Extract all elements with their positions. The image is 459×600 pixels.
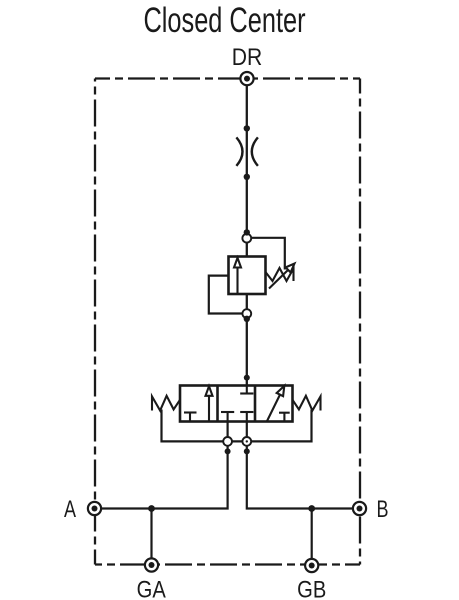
title: Closed Center — [143, 1, 305, 40]
junction dot above directional valve — [244, 375, 250, 381]
wire: GB drop line — [311, 509, 313, 566]
port B — [353, 502, 366, 515]
wire: DR port down through orifice to reducing valve — [246, 85, 248, 256]
wire: reducing valve outlet down to directional valve P port — [246, 294, 248, 386]
svg-text:B: B — [376, 497, 388, 523]
port GB — [305, 559, 318, 572]
junction dot on A-line at GA — [148, 505, 155, 512]
left position: blocked port T — [184, 413, 197, 422]
wire: A-line from valve to port A — [95, 422, 228, 509]
left position: flow arrow — [206, 386, 213, 421]
label GB — [297, 576, 326, 600]
node: A-line ring (open) — [223, 437, 232, 446]
wire: GA drop line — [150, 509, 152, 566]
right position: diagonal flow arrow — [267, 386, 285, 422]
reducing valve spring — [266, 268, 294, 281]
port GA — [145, 558, 158, 571]
label B — [376, 497, 388, 523]
svg-text:GA: GA — [137, 576, 166, 600]
centre position: blocked B port T — [240, 412, 253, 422]
pressure reducing valve body — [229, 257, 266, 295]
junction dot on B-line below ring — [244, 448, 250, 454]
label DR — [232, 44, 262, 71]
node: reducing valve outlet (ring + junction dot) — [242, 309, 251, 322]
svg-text:Closed Center: Closed Center — [143, 1, 305, 40]
right return spring — [293, 396, 321, 411]
node: reducing valve inlet (ring + junction dot) — [242, 229, 251, 242]
pilot line loop (left of reducing valve) — [209, 276, 243, 314]
label GA — [137, 576, 166, 600]
svg-text:DR: DR — [232, 44, 262, 71]
junction dot above orifice — [244, 125, 250, 131]
centre position: blocked A port T — [221, 412, 234, 422]
centre position: blocked P port T — [240, 386, 253, 394]
wire: B-line from valve to port B — [247, 422, 360, 509]
tank bypass U-line under valve — [162, 410, 312, 442]
svg-text:A: A — [64, 497, 77, 523]
node: B-line ring (with dot) — [242, 437, 251, 446]
left return spring — [152, 396, 180, 411]
reducing valve flow arrow — [234, 258, 241, 294]
svg-text:GB: GB — [297, 576, 326, 600]
junction dot on B-line at GB — [308, 505, 315, 512]
port DR — [240, 72, 253, 85]
junction dot on A-line below ring — [225, 448, 231, 454]
label A — [64, 497, 77, 523]
port A — [88, 502, 101, 515]
enclosure border (phantom dash-dot box) — [95, 79, 360, 565]
directional valve body (3 position) — [180, 386, 293, 422]
right position: blocked port T — [279, 413, 290, 422]
reducing valve adjustment arrow — [269, 264, 295, 289]
junction dot below orifice — [244, 174, 250, 180]
pilot branch wire to relief spring — [251, 238, 285, 270]
orifice (restriction) — [236, 137, 258, 166]
